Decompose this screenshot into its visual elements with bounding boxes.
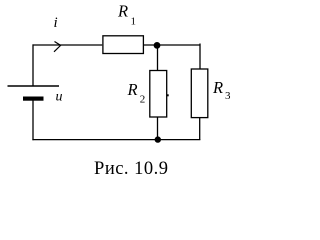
svg-text:3: 3 [225,90,231,102]
svg-text:R: R [212,78,223,97]
svg-text:i: i [54,15,58,31]
svg-text:1: 1 [131,16,137,28]
svg-text:R: R [127,80,138,99]
svg-text:Рис. 10.9: Рис. 10.9 [94,159,169,179]
svg-text:R: R [117,2,128,21]
svg-text:u: u [56,90,63,105]
svg-text:2: 2 [140,94,146,106]
